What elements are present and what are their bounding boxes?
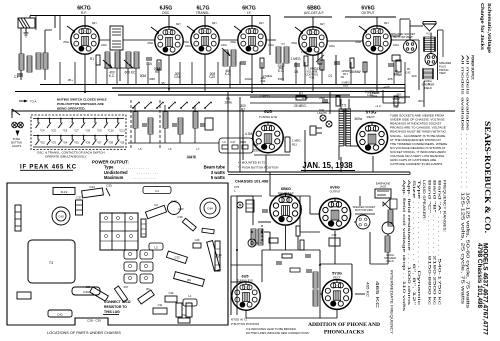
wire vertical [217,62,219,85]
wire vertical [350,62,352,85]
svg-text:C35: C35 [106,184,112,188]
capacitor C21 [200,123,205,125]
IF transformer T2 windings [223,50,228,66]
wire [194,128,196,143]
svg-text:I.F.: I.F. [247,11,252,15]
svg-text:. . . . . . . . . . .: . . . . . . . . . . . [133,175,156,180]
svg-text:CHASSIS 101.498: CHASSIS 101.498 [235,179,269,184]
svg-text:R17: R17 [124,285,129,289]
wire [261,265,263,282]
wire [350,145,358,147]
tube V5 6B8G AVC-DET-AF [299,27,327,55]
band switch coil L6 [163,112,168,128]
wire vertical [295,62,297,85]
svg-text:LOUD SPEAKER:: LOUD SPEAKER: [422,180,426,220]
svg-text:25MFD.: 25MFD. [394,96,404,100]
tube V10 5Y3G [322,280,352,310]
resistor R12 [178,318,190,323]
electrolytic C44 [200,198,220,218]
wire switch rail top [33,118,124,120]
wire [354,221,356,223]
tube 6U5 tuning eye [253,122,283,152]
svg-text:* - PUSH BUTTON POSITION: * - PUSH BUTTON POSITION [238,166,278,170]
resistor bar3 [320,60,324,70]
transformer core [344,108,346,146]
svg-text:C1: C1 [14,75,18,79]
underline [20,169,73,171]
svg-text:R17: R17 [343,72,348,76]
svg-text:All models available . . .: All models available . . . . . . . . . .… [466,55,470,188]
wire rail [12,110,455,112]
svg-text:465 KC: 465 KC [375,281,380,308]
svg-text:POWER OUTPUT:: POWER OUTPUT: [92,159,129,164]
capacitor C15 [146,57,152,59]
svg-text:R9: R9 [187,278,191,282]
wire [327,40,363,42]
capacitor C27 [294,63,300,65]
phono jack [248,239,256,247]
band switch coil L7 [178,118,183,134]
tube V6 6V6G OUTPUT [363,26,391,54]
wire vertical [179,62,181,85]
svg-text:C42: C42 [171,199,177,203]
power transformer T3 under chassis [28,240,75,283]
wire [269,232,271,250]
speaker output transformer windings [424,37,435,51]
svg-text:R12: R12 [261,79,266,83]
wire [285,226,287,250]
svg-text:*C4: *C4 [40,129,45,133]
wire [387,234,389,236]
wire [54,16,56,29]
wire bus [112,87,405,89]
wire [359,196,361,206]
svg-text:.05: .05 [406,67,410,71]
svg-text:250w: 250w [63,41,69,44]
svg-text:100w: 100w [329,45,335,48]
svg-text:.1 C34: .1 C34 [392,100,401,104]
svg-text:250MW: 250MW [350,70,361,74]
svg-text:C1: C1 [155,189,159,193]
svg-text:R6: R6 [146,287,150,291]
svg-text:KEY: KEY [92,22,97,25]
svg-text:THIS LUG: THIS LUG [104,310,120,314]
wire [106,68,108,85]
svg-text:BEING OPERATED.: BEING OPERATED. [57,107,86,111]
wire [44,30,46,53]
arrow into tube [295,27,303,33]
wire [179,134,181,143]
label TO A [19,100,24,102]
svg-text:AVC-DET-A.F.: AVC-DET-A.F. [304,11,324,15]
svg-text:SPEAKER: SPEAKER [422,82,435,86]
wire [265,155,267,172]
wire [135,68,137,85]
svg-text:PUSH: PUSH [13,137,20,141]
svg-text:C36: C36 [177,215,183,219]
wire [245,310,247,318]
wire [387,252,389,264]
tube V9 6U5 bottom view [232,282,260,310]
speaker plug subschematic [382,222,394,234]
electrolytic C45 [52,207,70,225]
svg-text:250w: 250w [291,42,297,45]
wire [261,250,263,265]
wire [164,128,166,143]
wire [128,142,215,144]
capacitor C2 [145,205,166,218]
resistor bar left chassis [15,205,21,231]
svg-text:5Y3G: 5Y3G [332,272,342,276]
svg-text:*O8: *O8 [108,141,113,145]
svg-text:KEY: KEY [212,22,217,25]
svg-text:C75: C75 [375,91,380,95]
svg-text:4 2 5: 4 2 5 [426,32,432,36]
wire [355,293,365,295]
wire antenna lead [29,16,31,19]
svg-text:250w: 250w [183,41,189,44]
svg-text:Maximum: Maximum [104,175,124,180]
wire [59,16,61,41]
svg-text:CONNECT 50CΩ: CONNECT 50CΩ [104,300,131,304]
wire top grid bus [55,15,270,17]
resistor R16 [285,137,290,152]
svg-text:T.3: T.3 [281,42,285,46]
resistor R21 [300,240,304,250]
wire [227,92,229,172]
svg-text:C34: C34 [89,185,95,189]
wire [242,110,244,160]
svg-text:TRANSL.: TRANSL. [196,11,210,15]
wire vertical [393,62,395,85]
svg-text:R5: R5 [155,70,159,74]
wire [231,195,262,197]
svg-text:C2: C2 [154,203,158,207]
wire [252,196,254,225]
wire [116,68,118,85]
svg-text:*C7: *C7 [74,129,79,133]
wire vertical [158,62,160,85]
capacitor sub2 [276,261,282,263]
capacitor C26 [322,99,328,101]
arrow into tube [151,27,159,33]
RF transformer shield box [110,26,123,50]
svg-text:LOCATIONS OF PARTS UNDER C: LOCATIONS OF PARTS UNDER CHASSIS [47,331,121,335]
svg-text:Schematic,Voltage: Schematic,Voltage [487,3,492,54]
coil L1b [183,299,197,306]
wire dashed [256,242,262,244]
wire grid cap V6 [376,17,378,26]
wire [231,281,246,283]
speaker socket subschematic [356,215,370,229]
wire [351,264,353,294]
wire [215,142,219,144]
wire cathode drop [312,55,314,92]
svg-text:C30: C30 [169,291,174,295]
svg-text:465 KC: 465 KC [366,282,370,298]
svg-text:SPEAKER: SPEAKER [439,61,451,65]
pilot lamp P2 [18,122,24,128]
wire vertical [364,62,366,85]
svg-text:6U5: 6U5 [242,275,249,279]
svg-text:C45: C45 [58,215,64,219]
wire vertical [191,62,193,85]
svg-text:BUTTON: BUTTON [11,140,22,144]
svg-text:OUTPUT: OUTPUT [330,189,341,193]
padder C17 box [205,118,213,130]
speaker cone subschematic [383,199,390,209]
wire speaker plug drop [430,33,432,54]
resistor R-19 [53,188,75,195]
svg-text:250w: 250w [253,149,261,153]
svg-text:250w: 250w [355,41,361,44]
svg-text:100w: 100w [268,44,274,47]
svg-text:25M: 25M [319,96,325,100]
svg-text:L3: L3 [154,246,158,250]
oscillator coil assembly windings [105,52,110,68]
wire bus [118,94,350,96]
wire grid cap V4 [251,16,253,27]
band switch shaft dashed 2 [159,100,161,148]
speaker cone [423,24,436,31]
capacitor C37 [76,200,83,215]
capacitor C30b [165,296,177,302]
svg-text:250w: 250w [230,41,236,44]
jack terminal strip [246,200,254,212]
AC line plug [316,127,322,129]
svg-text:R13: R13 [216,253,222,257]
push button switch PC4 [37,118,39,120]
svg-text:C42: C42 [406,70,411,74]
resistor R15 [394,96,398,106]
svg-text:PRONG: PRONG [439,68,449,72]
tube V4 6K7G IF [238,26,266,54]
wire [345,16,396,18]
wire [134,105,136,112]
wire plate [391,35,400,37]
wire [319,250,321,318]
svg-text:LIGHTS: LIGHTS [12,144,22,148]
svg-text:LIGHTS: LIGHTS [317,111,327,115]
push button switch PC8 [83,118,85,120]
capacitor C48 [269,238,278,243]
wire speaker [409,20,411,40]
wire [44,69,46,80]
capacitor C41a [388,63,394,65]
svg-text:C43: C43 [178,207,184,211]
svg-text:5 watts: 5 watts [211,175,226,180]
capacitor C34 [82,188,104,198]
wire [99,39,110,41]
svg-text:.01: .01 [328,74,333,78]
svg-text:OSC.: OSC. [162,11,170,15]
svg-text:ADDITION OF PHONE AND: ADDITION OF PHONE AND [308,322,380,328]
wire cathode drop [168,55,170,92]
wire [338,55,340,85]
wire vertical [74,62,76,85]
svg-text:250w: 250w [147,42,153,45]
wire grid cap V1 [84,16,86,27]
svg-text:100w: 100w [221,44,227,47]
resistor R14 [336,96,340,106]
trimmer arrows T2 [222,48,230,56]
band switch contact [204,107,206,109]
resistor R17 [114,286,127,302]
wire [340,99,342,109]
wire vertical [239,62,241,85]
coil L1 [19,54,24,70]
capacitor C29 [193,243,201,248]
wire [442,30,444,57]
resistor R1 [96,55,100,65]
svg-text:C15: C15 [146,62,152,66]
svg-text:1000ω: 1000ω [424,79,432,83]
svg-text:50M: 50M [140,74,147,78]
capacitor C42 C43 [168,202,181,215]
svg-text:L.: L. [234,189,237,193]
capacitor C40 [72,287,100,295]
psu filter box [382,90,384,103]
svg-text:*O4: *O4 [63,141,68,145]
svg-text:T3: T3 [49,261,53,265]
wire speaker field down [428,83,430,85]
capacitor C33 [166,251,187,263]
svg-text:FREQUENCY RANGES:: FREQUENCY RANGES: [443,180,447,232]
trimmer C5 arrow [124,60,133,68]
svg-text:*C6: *C6 [63,129,68,133]
speaker socket [404,40,417,53]
wire [20,70,22,80]
wire [423,81,425,107]
capacitor C41 [48,310,72,317]
arrow down [16,131,20,137]
wire [282,63,284,81]
svg-text:SEARS-ROEBUCK & CO.: SEARS-ROEBUCK & CO. [483,121,492,233]
push button switch PO9 [117,135,119,137]
wire [269,16,271,56]
wire [418,40,420,90]
capacitor C8 [143,187,171,194]
svg-text:. . . . . . . . . . . . .: . . . . . . . . . . . . . [121,165,149,170]
svg-text:Size . . . . . . . .: Size . . . . . . . . . . . . 6", 8", 12" [412,180,416,307]
svg-text:C33: C33 [174,256,180,260]
band switch contact [132,107,134,109]
wire [320,293,322,295]
wire [334,250,336,264]
tone control [396,60,401,72]
svg-text:PHONO,JACKS: PHONO,JACKS [324,330,364,336]
svg-text:*O2: *O2 [40,141,45,145]
wire [399,19,401,36]
wire [253,144,258,146]
svg-text:R13: R13 [310,76,315,80]
svg-text:100w: 100w [393,44,399,47]
wire [369,250,371,264]
svg-text:100w: 100w [185,45,191,48]
capacitor sub [262,209,268,211]
speaker field coil 1000 ohm [423,69,433,79]
speaker plug [425,54,437,66]
svg-text:• - MOUNTED IN T2: • - MOUNTED IN T2 [238,161,265,165]
wire [246,317,337,319]
resistor R20 [296,226,300,236]
capacitor C19 [172,123,177,125]
wire [334,231,336,250]
push button switch PC6 [60,118,62,120]
svg-text:6V6G: 6V6G [330,186,340,190]
earphone jack symbol [375,189,391,198]
capacitor C36b [182,218,196,231]
wire bus [15,91,405,93]
svg-text:MTOD IN T2: MTOD IN T2 [231,318,247,322]
svg-text:4798 Chassis 101,498: 4798 Chassis 101,498 [476,243,482,309]
svg-text:PLUG: PLUG [439,64,446,68]
wire cathode drop [376,54,378,92]
wire [340,157,342,172]
svg-text:KEY: KEY [320,23,325,26]
svg-text:RESISTOR TO: RESISTOR TO [104,305,127,309]
capacitor C28b [334,61,340,63]
svg-text:CATHODE CURRENT IN MILLIAMPS.: CATHODE CURRENT IN MILLIAMPS. [390,162,443,166]
svg-text:C49: C49 [332,233,337,237]
svg-text:+1.2↓: +1.2↓ [375,104,381,108]
wire [338,146,340,160]
capacitor box [392,55,400,61]
svg-text:C25: C25 [209,75,215,79]
band switch wafer A [124,250,137,259]
svg-text:5Y3G: 5Y3G [366,110,377,115]
speaker field subschematic [385,236,390,252]
capacitor C4 chassis [17,292,31,299]
terminal dots [236,249,238,251]
svg-text:C37: C37 [76,196,82,200]
wire [297,236,299,250]
wire vertical [304,62,306,85]
wire vertical [261,62,263,85]
svg-text:R.F.: R.F. [81,11,87,15]
svg-text:.00025: .00025 [277,64,285,68]
band switch contact [192,107,194,109]
wire [391,39,419,41]
svg-text:*C5: *C5 [51,129,56,133]
wire vertical [59,62,61,85]
push button switch PO2 [37,135,39,137]
wire vertical [95,62,97,85]
svg-text:PUSH BUTTON SWITCHES ARE: PUSH BUTTON SWITCHES ARE [57,102,104,106]
wire switch rail mid [33,135,124,137]
push button switch PO3 [49,135,51,137]
svg-text:JACK: JACK [380,185,387,189]
wire vertical [147,62,149,85]
wire cathode drop [251,54,253,92]
svg-text:App. field resistance . . .: App. field resistance . . . 1000 ohms [407,180,411,305]
wire [409,172,411,175]
wire [370,263,388,265]
power transformer T5 subschematic [313,272,318,288]
svg-text:C36: C36 [86,285,91,289]
svg-text:R1: R1 [90,57,94,61]
wire [230,196,232,315]
svg-text:1 MEG.: 1 MEG. [291,57,302,61]
wire [194,105,196,112]
wire [219,39,238,41]
wire [410,25,423,27]
svg-text:JAN. 15, 1938: JAN. 15, 1938 [302,161,353,170]
wire coil bottoms [104,67,140,69]
wire [35,16,37,31]
svg-text:DOTTED LINES INDICATE NEW CONN: DOTTED LINES INDICATE NEW CONNECTIONS. [246,331,310,335]
wire [437,30,439,80]
